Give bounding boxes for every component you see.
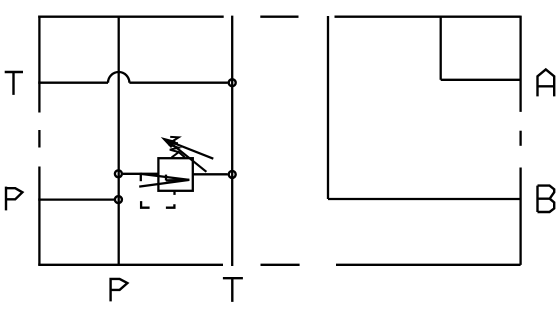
left block right edge: [231, 16, 233, 266]
right block right edge dash: [519, 131, 521, 146]
wire hop over P channel: [108, 72, 129, 83]
wire valve outlet line: [193, 173, 228, 175]
right block right edge upper segment: [519, 16, 521, 112]
left block left edge dash: [38, 130, 40, 148]
node T port circle: [229, 79, 236, 86]
right block right edge lower segment: [519, 168, 521, 265]
right block left edge: [327, 16, 329, 199]
label T bottom port: [223, 278, 243, 302]
relief valve adjustment arrow head: [162, 138, 175, 147]
wire T line right part: [129, 82, 227, 84]
relief valve spring base: [172, 152, 185, 157]
relief valve internal arrow shaft: [141, 174, 190, 180]
relief valve V1 body box: [158, 158, 192, 191]
relief valve drain dash 1: [166, 204, 175, 207]
relief valve adjustment arrow shaft: [165, 140, 213, 159]
node valve outlet circle: [229, 171, 236, 178]
top dashed segment between blocks: [260, 16, 298, 18]
relief valve drain dash 2: [141, 201, 150, 208]
node valve inlet circle: [115, 170, 122, 177]
relief valve spring: [169, 137, 179, 152]
bottom dashed segment between blocks: [261, 264, 300, 266]
left block bottom edge: [38, 264, 223, 266]
wire P line: [38, 198, 114, 200]
relief valve internal arrow lower line: [139, 180, 189, 187]
wire valve inlet line: [123, 173, 158, 175]
relief valve internal arrow tail tick: [140, 173, 142, 182]
right block bottom edge: [336, 264, 521, 266]
label T left port: [5, 72, 23, 95]
relief valve drain stub: [173, 191, 175, 195]
relief valve internal arrow barb tick: [165, 175, 167, 181]
left block left edge upper segment: [38, 16, 40, 113]
left block left edge lower segment: [38, 167, 40, 265]
label P left port: [6, 187, 22, 211]
right block B line: [328, 198, 521, 200]
label P bottom port: [111, 278, 128, 302]
node P junction circle: [115, 196, 122, 203]
label A port: [538, 69, 555, 96]
relief valve internal arrow barb: [166, 179, 190, 182]
inner vertical P channel: [118, 17, 120, 265]
right block top edge: [335, 16, 521, 18]
left block top edge: [38, 16, 224, 18]
label B port: [538, 186, 555, 212]
wire T line left part: [38, 82, 108, 84]
right block notch vertical: [440, 17, 442, 80]
right block notch horizontal: [441, 79, 521, 81]
relief valve second diagonal: [174, 145, 207, 172]
